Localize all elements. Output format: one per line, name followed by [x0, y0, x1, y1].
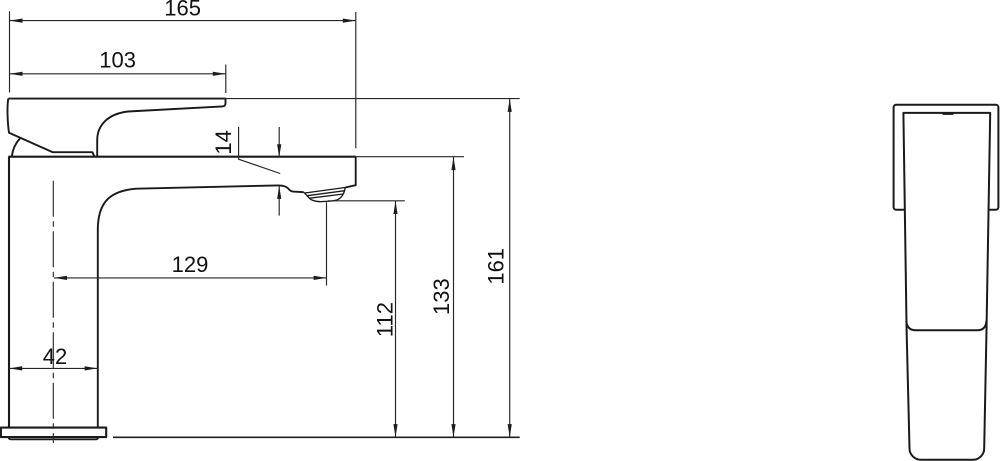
- extension 165 right: [355, 12, 357, 148]
- dimension 133 line: [453, 157, 455, 437]
- dimension 129 line: [54, 277, 327, 279]
- dimension 112 line: [395, 201, 397, 437]
- base lip: [9, 437, 99, 439]
- svg-text:103: 103: [99, 47, 136, 72]
- spout tip right face: [345, 157, 356, 188]
- arrowheads 42: [9, 366, 22, 370]
- front view body: [903, 113, 990, 460]
- arrowheads 133: [451, 157, 455, 170]
- svg-text:165: 165: [164, 0, 201, 20]
- aerator bottom: [312, 198, 341, 202]
- svg-text:112: 112: [372, 302, 397, 337]
- arrowheads 14: [277, 144, 281, 157]
- front view lever plate: [894, 105, 999, 210]
- dimension 161 line: [509, 99, 511, 437]
- arrowheads 165: [10, 19, 23, 23]
- svg-text:42: 42: [43, 344, 67, 369]
- arrowheads 112: [393, 201, 397, 214]
- front view logo mark: [943, 112, 954, 115]
- dimension 103 line: [10, 73, 226, 75]
- extension 112 top: [328, 200, 405, 202]
- dimension 14 lines: [278, 127, 280, 157]
- leader 14: [239, 127, 281, 174]
- lever front arc: [12, 138, 21, 157]
- centerline: [52, 181, 54, 443]
- extension 133 top: [356, 156, 464, 158]
- extension 129 right: [326, 202, 328, 285]
- aerator band lines: [305, 188, 345, 194]
- base flange: [1, 428, 106, 438]
- extension 161 top: [226, 98, 520, 100]
- extension 103 right: [225, 65, 227, 94]
- body left edge: [8, 157, 10, 428]
- svg-text:129: 129: [172, 252, 209, 277]
- aerator left steps: [304, 192, 312, 200]
- svg-text:14: 14: [211, 130, 236, 154]
- arrowheads 103: [10, 72, 23, 76]
- lever handle top: [8, 99, 225, 157]
- svg-text:161: 161: [484, 248, 509, 285]
- counter baseline: [113, 436, 520, 438]
- aerator right steps: [340, 188, 345, 198]
- dimension 165 line: [10, 20, 356, 22]
- front view joint line: [906, 321, 986, 331]
- arrowheads 161: [508, 99, 512, 112]
- svg-text:133: 133: [429, 278, 454, 315]
- extension line left (165/103): [9, 11, 11, 92]
- dimension 42 line: [9, 367, 97, 369]
- body right edge and spout underside: [98, 185, 304, 427]
- lever handle front: [8, 99, 95, 157]
- arrowheads 129: [54, 276, 67, 280]
- body top line: [8, 156, 356, 158]
